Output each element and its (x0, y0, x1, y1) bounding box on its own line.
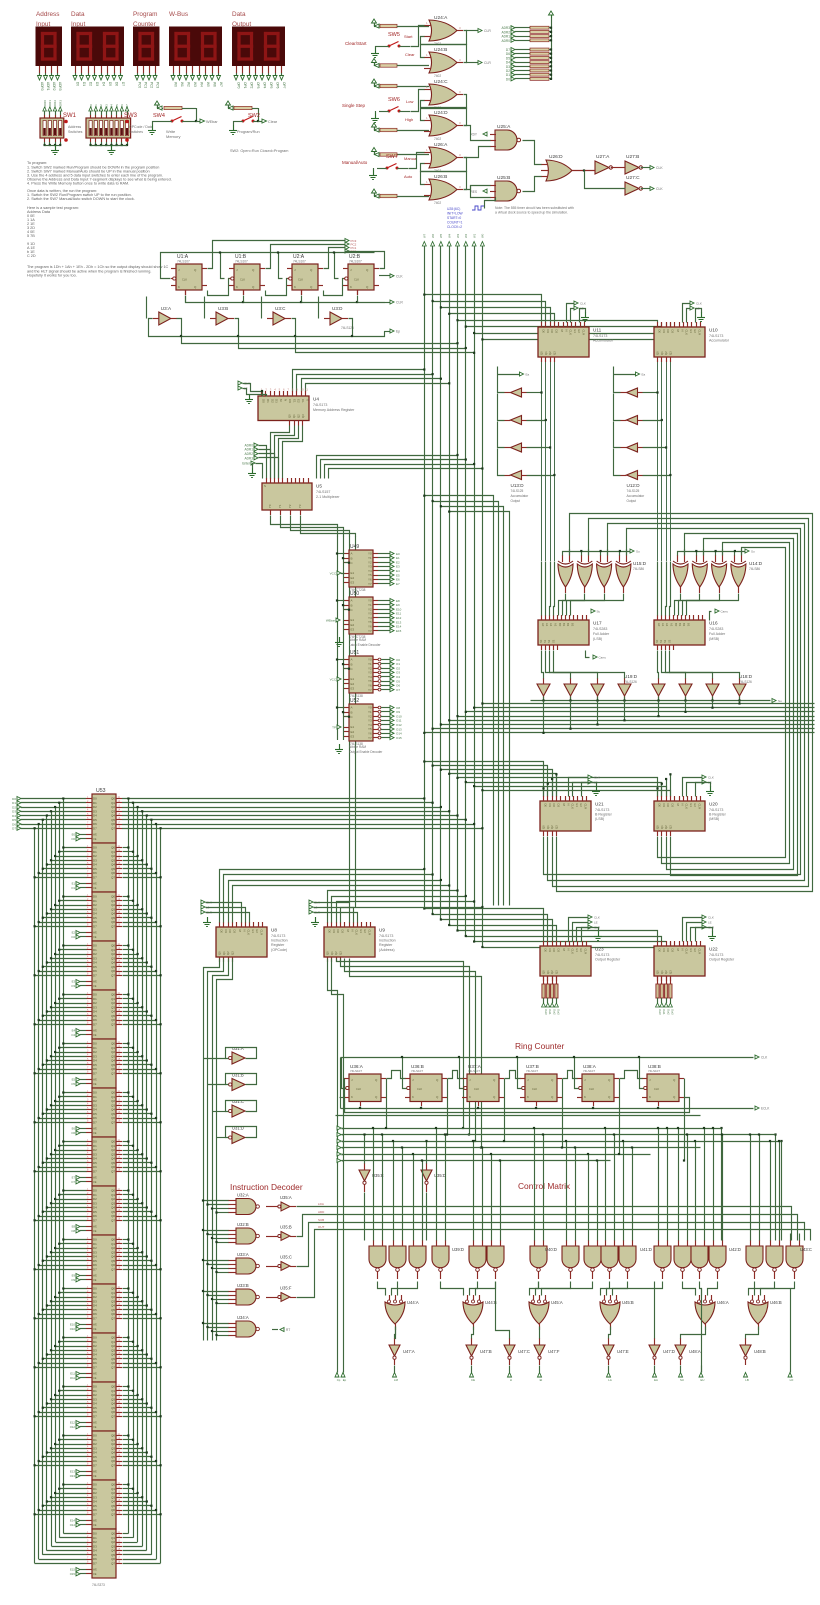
svg-text:U51: U51 (350, 650, 359, 656)
svg-text:N: N (680, 804, 684, 806)
svg-text:D2: D2 (270, 399, 274, 403)
svg-text:D0: D0 (89, 104, 93, 108)
svg-text:OP6: OP6 (276, 82, 280, 89)
svg-text:W7: W7 (423, 233, 427, 238)
svg-text:WE: WE (93, 883, 97, 886)
svg-text:CLK: CLK (685, 949, 689, 955)
svg-text:D0: D0 (544, 804, 548, 808)
svg-text:A1: A1 (545, 623, 549, 627)
svg-text:K: K (350, 285, 352, 289)
svg-text:B2: B2 (682, 623, 686, 627)
svg-text:E15: E15 (396, 629, 402, 633)
svg-text:CLR: CLR (484, 61, 491, 65)
svg-text:E1: E1 (575, 804, 579, 808)
svg-text:U31:A: U31:A (232, 1046, 244, 1051)
svg-text:A: A (351, 706, 353, 710)
svg-text:D6: D6 (115, 82, 119, 86)
svg-text:ADR0: ADR0 (501, 39, 510, 43)
svg-text:Su: Su (597, 610, 601, 614)
svg-text:D2: D2 (666, 330, 670, 334)
svg-text:74LS107: 74LS107 (468, 1069, 480, 1073)
svg-text:D7: D7 (125, 104, 129, 108)
svg-text:SW6: SW6 (388, 97, 400, 103)
svg-text:Q7: Q7 (111, 1561, 115, 1565)
svg-text:U33:B: U33:B (237, 1283, 249, 1288)
svg-text:E2: E2 (693, 804, 697, 808)
svg-text:LM: LM (394, 1378, 399, 1382)
svg-text:74LS107: 74LS107 (411, 1069, 423, 1073)
svg-text:O12: O12 (70, 1425, 76, 1429)
svg-text:74LS107: 74LS107 (350, 1069, 362, 1073)
svg-text:Q3: Q3 (554, 970, 558, 974)
svg-text:CLK: CLK (580, 302, 586, 306)
svg-text:Single Step: Single Step (342, 103, 366, 108)
svg-text:U42:D: U42:D (729, 1247, 741, 1252)
svg-text:ADR3: ADR3 (244, 456, 253, 460)
svg-text:Ea: Ea (642, 373, 646, 377)
svg-text:Su: Su (778, 699, 782, 703)
svg-text:E4: E4 (72, 1029, 76, 1033)
svg-text:U49: U49 (350, 544, 359, 550)
svg-text:D7: D7 (93, 1218, 97, 1222)
svg-text:K: K (236, 285, 238, 289)
svg-text:U45:B: U45:B (622, 1300, 634, 1305)
svg-text:Accumulator: Accumulator (511, 494, 530, 498)
svg-text:74LS126: 74LS126 (624, 680, 637, 684)
svg-text:OE: OE (93, 1475, 97, 1478)
svg-text:OUT: OUT (318, 1225, 325, 1229)
svg-text:U28:(6C): U28:(6C) (447, 207, 460, 211)
svg-text:D7: D7 (93, 1365, 97, 1369)
svg-text:74LS173: 74LS173 (595, 953, 609, 957)
svg-text:E2: E2 (351, 623, 355, 627)
svg-text:D2: D2 (228, 930, 232, 934)
svg-text:U20: U20 (709, 802, 718, 807)
svg-text:Y0: Y0 (268, 504, 272, 508)
svg-text:N: N (284, 399, 288, 401)
svg-text:E6: E6 (72, 1127, 76, 1131)
svg-text:Data: Data (232, 11, 246, 18)
svg-text:B: B (351, 662, 353, 666)
svg-text:U17: U17 (593, 621, 602, 626)
svg-text:CLK: CLK (474, 1087, 479, 1091)
svg-text:4. Press the Write Memory butt: 4. Press the Write Memory button once to… (27, 182, 129, 186)
svg-text:D3: D3 (556, 949, 560, 953)
svg-text:U47:D: U47:D (663, 1349, 675, 1354)
svg-text:WE: WE (93, 1226, 97, 1229)
svg-text:WE: WE (93, 1471, 97, 1474)
svg-text:D1: D1 (546, 330, 550, 334)
svg-text:U14:D: U14:D (749, 561, 763, 566)
svg-text:WE: WE (93, 981, 97, 984)
svg-text:ADR0: ADR0 (43, 100, 47, 108)
svg-text:EU: EU (701, 1378, 705, 1382)
svg-text:CLR: CLR (260, 930, 264, 936)
svg-text:E0: E0 (72, 833, 76, 837)
svg-text:U8: U8 (271, 928, 277, 933)
svg-text:74LS125: 74LS125 (511, 489, 524, 493)
svg-text:Nibble RAM: Nibble RAM (349, 745, 366, 749)
svg-text:A: A (351, 599, 353, 603)
svg-text:74LS86: 74LS86 (633, 567, 644, 571)
svg-text:OE: OE (93, 1377, 97, 1380)
svg-text:A3: A3 (669, 623, 673, 627)
svg-text:U5: U5 (316, 484, 322, 489)
svg-text:B1: B1 (678, 623, 682, 627)
svg-text:U31:C: U31:C (232, 1099, 244, 1104)
svg-text:Q7: Q7 (111, 1218, 115, 1222)
svg-text:N: N (680, 949, 684, 951)
svg-text:Hopefully it works for you too: Hopefully it works for you too. (27, 274, 77, 278)
svg-text:TP: TP (332, 726, 336, 730)
svg-text:D0: D0 (658, 804, 662, 808)
svg-text:High: High (405, 117, 413, 122)
svg-text:D7: D7 (93, 1267, 97, 1271)
svg-text:U47:F: U47:F (548, 1349, 560, 1354)
svg-text:CLK: CLK (761, 1056, 768, 1060)
svg-text:D2: D2 (550, 330, 554, 334)
svg-text:CLR: CLR (396, 301, 403, 305)
svg-text:D5: D5 (115, 104, 119, 108)
svg-text:OP3: OP3 (256, 82, 260, 89)
svg-text:Y7: Y7 (368, 629, 372, 633)
svg-text:D1: D1 (548, 949, 552, 953)
svg-text:E13: E13 (70, 1470, 75, 1474)
svg-text:VCC: VCC (330, 572, 337, 576)
svg-text:D6: D6 (120, 104, 124, 108)
svg-text:D2: D2 (552, 804, 556, 808)
svg-text:D3: D3 (554, 330, 558, 334)
svg-text:K: K (351, 1095, 353, 1099)
svg-text:U21: U21 (595, 802, 604, 807)
svg-text:CLK: CLK (685, 804, 689, 810)
svg-text:CLR: CLR (582, 330, 586, 336)
svg-text:S2: S2 (547, 639, 551, 643)
svg-text:CLK: CLK (708, 776, 714, 780)
svg-text:B: B (351, 556, 353, 560)
svg-text:D1: D1 (94, 104, 98, 108)
svg-text:WE: WE (93, 1275, 97, 1278)
svg-text:U34:A: U34:A (237, 1315, 249, 1320)
svg-text:D7: D7 (93, 1512, 97, 1516)
svg-text:D3: D3 (670, 804, 674, 808)
svg-text:U27:C: U27:C (626, 175, 640, 181)
svg-text:74LS86: 74LS86 (749, 567, 760, 571)
svg-text:U27:B: U27:B (626, 154, 639, 160)
svg-text:D3: D3 (670, 949, 674, 953)
svg-text:11: 11 (305, 388, 308, 392)
svg-text:CLK: CLK (247, 930, 251, 936)
svg-text:U48:A: U48:A (689, 1349, 701, 1354)
svg-text:E3: E3 (351, 580, 355, 584)
svg-text:E3: E3 (72, 980, 76, 984)
svg-text:E3: E3 (351, 686, 355, 690)
svg-text:74LS107: 74LS107 (293, 260, 306, 264)
svg-text:Q3: Q3 (668, 825, 672, 829)
svg-text:D1: D1 (548, 804, 552, 808)
svg-text:B3: B3 (686, 623, 690, 627)
svg-text:Out2: Out2 (552, 1009, 556, 1015)
svg-text:E2: E2 (693, 330, 697, 334)
svg-text:OE: OE (93, 1573, 97, 1576)
svg-text:W4: W4 (200, 82, 204, 87)
svg-text:D1: D1 (266, 399, 270, 403)
svg-text:U40:D: U40:D (545, 1247, 557, 1252)
svg-text:OE: OE (93, 887, 97, 890)
svg-text:D0: D0 (328, 930, 332, 934)
svg-text:E3: E3 (351, 734, 355, 738)
svg-text:WE: WE (93, 1324, 97, 1327)
svg-text:Program: Program (133, 11, 158, 18)
svg-text:U3:B: U3:B (218, 306, 228, 311)
svg-text:D0: D0 (262, 399, 266, 403)
svg-text:U24:A: U24:A (434, 15, 448, 21)
svg-text:A2: A2 (665, 623, 669, 627)
svg-text:D0: D0 (220, 930, 224, 934)
svg-text:Ea: Ea (526, 373, 530, 377)
svg-text:D4: D4 (110, 104, 114, 108)
svg-text:S0: S0 (539, 639, 543, 643)
svg-text:LE: LE (708, 921, 712, 925)
svg-text:OE: OE (93, 1230, 97, 1233)
svg-text:O11: O11 (70, 1376, 76, 1380)
svg-text:ECLK: ECLK (761, 1107, 770, 1111)
svg-text:WE: WE (93, 1177, 97, 1180)
svg-text:E1: E1 (351, 677, 355, 681)
svg-text:D2: D2 (89, 82, 93, 86)
svg-text:X: X (306, 399, 310, 401)
svg-text:CLK: CLK (656, 166, 663, 170)
svg-text:OE: OE (93, 936, 97, 939)
svg-text:U35:A: U35:A (280, 1195, 292, 1200)
svg-text:D1: D1 (662, 330, 666, 334)
svg-text:D7: D7 (12, 827, 16, 831)
svg-text:U44:A: U44:A (407, 1300, 419, 1305)
svg-text:WEbar: WEbar (326, 619, 335, 623)
svg-text:U52: U52 (350, 698, 359, 704)
svg-text:PC1: PC1 (144, 82, 148, 88)
svg-text:CLK: CLK (696, 302, 702, 306)
svg-text:Su: Su (636, 550, 640, 554)
svg-text:OP5: OP5 (269, 82, 273, 89)
svg-text:CLR: CLR (698, 804, 702, 810)
svg-text:OP2: OP2 (250, 82, 254, 89)
svg-text:U25:B: U25:B (497, 175, 510, 181)
svg-text:Full Adder: Full Adder (593, 632, 610, 636)
svg-text:RDY: RDY (470, 133, 478, 137)
svg-text:74LS107: 74LS107 (648, 1069, 660, 1073)
svg-text:U15:D: U15:D (633, 561, 647, 566)
svg-text:U47:E: U47:E (617, 1349, 629, 1354)
svg-text:E7: E7 (396, 582, 400, 586)
svg-text:RES: RES (470, 190, 477, 194)
svg-text:A1: A1 (661, 623, 665, 627)
svg-text:S3: S3 (667, 639, 671, 643)
svg-text:74LS125: 74LS125 (627, 489, 640, 493)
svg-text:CLR: CLR (698, 330, 702, 336)
svg-text:Carry: Carry (721, 610, 729, 614)
svg-text:CLK: CLK (356, 1087, 361, 1091)
svg-text:5 7B: 5 7B (27, 234, 35, 238)
svg-text:U32:A: U32:A (237, 1193, 249, 1198)
svg-text:S3: S3 (551, 639, 555, 643)
svg-text:Output Register: Output Register (595, 958, 621, 962)
svg-text:K: K (412, 1095, 414, 1099)
svg-text:U39:D: U39:D (452, 1247, 464, 1252)
svg-text:Clear: Clear (268, 120, 278, 124)
svg-text:LB: LB (745, 1378, 749, 1382)
svg-text:Out3: Out3 (557, 1009, 561, 1015)
svg-text:Low: Low (406, 99, 413, 104)
svg-text:(OPCode): (OPCode) (271, 948, 287, 952)
svg-text:N: N (566, 949, 570, 951)
svg-text:U3:C: U3:C (275, 306, 286, 311)
svg-text:Output: Output (511, 499, 521, 503)
svg-text:Memory: Memory (166, 134, 180, 139)
svg-text:D1: D1 (662, 949, 666, 953)
svg-text:CLK: CLK (354, 278, 359, 282)
svg-text:Y3: Y3 (298, 504, 302, 508)
svg-text:Q7: Q7 (111, 1169, 115, 1173)
svg-text:CLK: CLK (571, 804, 575, 810)
svg-text:U50: U50 (350, 591, 359, 597)
svg-text:K: K (178, 285, 180, 289)
svg-text:OE: OE (93, 1426, 97, 1429)
svg-text:U35:F: U35:F (280, 1286, 292, 1291)
svg-text:K: K (294, 285, 296, 289)
svg-text:OP0: OP0 (237, 82, 241, 89)
svg-text:O6: O6 (71, 1131, 75, 1135)
svg-text:OPCode / Data: OPCode / Data (129, 125, 153, 129)
svg-text:U19:D: U19:D (624, 674, 638, 679)
svg-text:D0: D0 (544, 949, 548, 953)
svg-text:COUNT=1: COUNT=1 (447, 221, 463, 225)
svg-text:W5: W5 (439, 233, 443, 238)
svg-text:U47:A: U47:A (403, 1349, 415, 1354)
svg-text:D7: D7 (93, 1561, 97, 1565)
svg-text:U26:B: U26:B (434, 174, 447, 180)
svg-text:10: 10 (301, 388, 305, 392)
svg-text:(MSB): (MSB) (709, 817, 719, 821)
svg-text:WE: WE (93, 1030, 97, 1033)
svg-text:Nibble RAM: Nibble RAM (349, 638, 366, 642)
svg-text:E7: E7 (72, 1176, 76, 1180)
svg-text:E2: E2 (351, 682, 355, 686)
svg-text:D3: D3 (275, 399, 279, 403)
svg-text:E1: E1 (689, 949, 693, 953)
svg-text:OE: OE (93, 985, 97, 988)
svg-text:Full Adder: Full Adder (709, 632, 726, 636)
svg-text:Out1: Out1 (548, 1009, 552, 1015)
svg-text:Enter: Enter (242, 462, 251, 466)
svg-text:D7: D7 (93, 1414, 97, 1418)
svg-text:E1: E1 (351, 571, 355, 575)
svg-text:O7: O7 (396, 688, 400, 692)
svg-text:D3: D3 (104, 104, 108, 108)
svg-text:Register: Register (271, 943, 285, 947)
svg-text:U12:D: U12:D (627, 483, 641, 488)
svg-text:74LS173: 74LS173 (709, 334, 723, 338)
svg-text:Output Enable Decoder: Output Enable Decoder (349, 750, 383, 754)
svg-text:(Address): (Address) (379, 948, 395, 952)
svg-text:Q7: Q7 (111, 1071, 115, 1075)
svg-text:E1: E1 (359, 930, 363, 934)
svg-text:D7: D7 (93, 1071, 97, 1075)
svg-text:U48:B: U48:B (754, 1349, 766, 1354)
svg-text:O1: O1 (71, 886, 75, 890)
svg-text:E1: E1 (351, 725, 355, 729)
svg-text:U47:B: U47:B (480, 1349, 492, 1354)
svg-text:Q3: Q3 (338, 951, 342, 955)
svg-text:a virtual clock source to spee: a virtual clock source to speed up the s… (495, 211, 568, 215)
svg-text:CLK: CLK (569, 330, 573, 336)
svg-text:74LS107: 74LS107 (349, 260, 362, 264)
svg-text:U35:D: U35:D (434, 1173, 446, 1178)
svg-text:S1: S1 (543, 639, 547, 643)
svg-text:O4: O4 (71, 1033, 75, 1037)
svg-text:O14: O14 (70, 1523, 76, 1527)
svg-text:K: K (649, 1095, 651, 1099)
svg-text:U53: U53 (96, 788, 106, 794)
svg-text:7402: 7402 (434, 137, 441, 141)
svg-text:W7: W7 (219, 82, 223, 87)
svg-text:(LSB): (LSB) (593, 637, 602, 641)
svg-text:CLK: CLK (355, 930, 359, 936)
svg-text:E1: E1 (72, 882, 76, 886)
svg-text:CLK: CLK (594, 916, 600, 920)
svg-text:D7: D7 (121, 82, 125, 86)
svg-text:Program/Run: Program/Run (237, 130, 260, 134)
svg-text:2-1 Multiplexer: 2-1 Multiplexer (316, 495, 340, 499)
svg-text:E2: E2 (693, 949, 697, 953)
svg-text:Out0: Out0 (658, 1009, 662, 1015)
svg-text:74LS173: 74LS173 (595, 808, 609, 812)
svg-text:D7: D7 (93, 826, 97, 830)
svg-text:E2: E2 (351, 576, 355, 580)
svg-text:Q7: Q7 (111, 1463, 115, 1467)
svg-text:Q3: Q3 (230, 951, 234, 955)
svg-text:74LS107: 74LS107 (526, 1069, 538, 1073)
svg-text:W0: W0 (174, 82, 178, 87)
svg-text:E1: E1 (292, 399, 296, 403)
svg-text:D7: D7 (93, 875, 97, 879)
svg-text:Q7: Q7 (111, 924, 115, 928)
svg-text:Q3: Q3 (668, 970, 672, 974)
svg-text:W6: W6 (213, 82, 217, 87)
svg-text:U35:B: U35:B (280, 1225, 292, 1230)
svg-text:N: N (242, 930, 246, 932)
svg-text:U32:B: U32:B (237, 1222, 249, 1227)
svg-text:CLK: CLK (571, 949, 575, 955)
svg-text:CLR: CLR (368, 930, 372, 936)
svg-text:O5: O5 (71, 1082, 75, 1086)
svg-text:B: B (351, 603, 353, 607)
svg-text:OE: OE (93, 1279, 97, 1282)
svg-text:Ep: Ep (343, 1378, 347, 1382)
svg-text:Q3: Q3 (301, 414, 305, 418)
svg-text:PC2: PC2 (150, 82, 154, 88)
svg-text:LE: LE (594, 921, 598, 925)
svg-text:EI: EI (540, 1378, 543, 1382)
svg-text:E11: E11 (70, 1372, 75, 1376)
svg-text:SW3: SW3 (124, 113, 138, 119)
svg-text:D1: D1 (224, 930, 228, 934)
svg-text:O15: O15 (396, 736, 402, 740)
svg-text:Y7: Y7 (368, 582, 372, 586)
svg-text:Data: Data (71, 11, 85, 18)
svg-text:E2: E2 (579, 804, 583, 808)
svg-text:A: A (351, 552, 353, 556)
